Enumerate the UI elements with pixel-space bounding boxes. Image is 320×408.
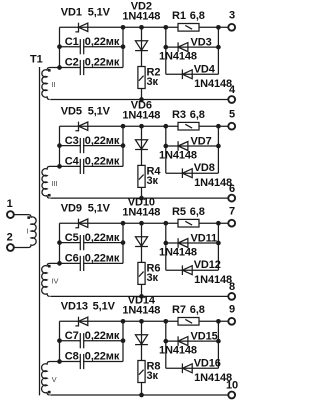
wire C2 left lead (60, 67, 81, 69)
junction C7 right (121, 338, 126, 343)
svg-text:C1: C1 (65, 36, 79, 48)
junction VD15 row left (163, 339, 168, 344)
junction C1 left (57, 44, 62, 49)
wire C6 right lead (84, 262, 123, 264)
svg-text:C7: C7 (65, 330, 79, 342)
terminal pin 1 (7, 211, 14, 218)
svg-text:III: III (52, 179, 58, 188)
junction C1 right (121, 44, 126, 49)
junction C3 right (121, 143, 126, 148)
junction rail/diode-left block1 (163, 25, 168, 30)
resistor R4 (138, 165, 145, 187)
svg-text:1N4148: 1N4148 (194, 274, 232, 286)
svg-text:C6: C6 (65, 253, 79, 265)
wire VD6-R4 chain vertical (141, 126, 143, 198)
svg-text:V: V (52, 375, 57, 384)
wire VD4 row (166, 73, 219, 75)
resistor R7 (178, 318, 199, 326)
svg-text:VD55,1V: VD55,1V (61, 105, 111, 117)
svg-text:I: I (27, 227, 29, 236)
junction rail/diode-left block2 (163, 124, 168, 129)
junction rail/cap-vertical block4 (121, 319, 126, 324)
svg-text:C3: C3 (65, 135, 79, 147)
wire C7 left lead (60, 340, 81, 342)
diode VD6 (135, 140, 147, 150)
wire diode-right vertical block2 (217, 126, 219, 173)
svg-text:0,22мк: 0,22мк (85, 351, 120, 363)
zener diode VD1 (75, 23, 78, 32)
junction R4 bottom (139, 196, 144, 201)
svg-text:1: 1 (7, 198, 13, 210)
svg-text:VD11: VD11 (191, 233, 218, 245)
svg-text:3к: 3к (147, 370, 159, 382)
wire diode-left vertical block4 (165, 321, 167, 368)
svg-text:1N4148: 1N4148 (122, 11, 160, 23)
svg-text:R36,8: R36,8 (172, 109, 205, 121)
diode VD14 (135, 335, 147, 345)
wire C3 right lead (84, 145, 123, 147)
junction rail/diode-right block4 (216, 319, 221, 324)
svg-text:R76,8: R76,8 (172, 304, 205, 316)
capacitor C2 (79, 60, 81, 75)
wire C7 right lead (84, 340, 123, 342)
winding I phase dot (27, 216, 30, 219)
wire C3 left lead (60, 145, 81, 147)
junction rail/diode-right block1 (216, 25, 221, 30)
zener diode VD5 (75, 122, 78, 131)
transformer primary winding I (14, 215, 36, 248)
terminal pin 4 (228, 96, 235, 103)
wire C1 right lead (84, 46, 123, 48)
winding III phase dot (48, 194, 51, 197)
wire C4 left lead (60, 165, 81, 167)
winding V phase dot (48, 391, 51, 394)
svg-text:7: 7 (229, 206, 235, 218)
svg-text:2: 2 (7, 232, 13, 244)
junction rail/VD10 block3 (139, 221, 144, 226)
wire VD8 row (166, 172, 219, 174)
wire bottom rail block1 (50, 99, 228, 101)
wire cap-right vertical block3 (122, 223, 124, 263)
wire C6 left lead (60, 262, 81, 264)
resistor R5 (178, 219, 199, 227)
terminal pin 9 (228, 318, 235, 325)
svg-text:1N4148: 1N4148 (159, 345, 197, 357)
capacitor C3 (79, 138, 81, 153)
svg-text:VD4: VD4 (194, 63, 216, 75)
svg-text:VD16: VD16 (194, 357, 221, 369)
svg-text:VD15,1V: VD15,1V (61, 6, 111, 18)
svg-text:0,22мк: 0,22мк (85, 135, 120, 147)
wire diode-right vertical block3 (217, 223, 219, 270)
junction rail/VD14 block4 (139, 319, 144, 324)
resistor R6 (138, 262, 145, 284)
junction rail/diode-right block2 (216, 124, 221, 129)
wire top rail block2 (60, 125, 229, 127)
resistor R1 (178, 24, 199, 32)
junction rail/diode-left block3 (163, 221, 168, 226)
svg-text:II: II (52, 80, 56, 89)
diode VD10 (135, 237, 147, 247)
junction VD7 row right (216, 144, 221, 149)
transformer winding III (42, 166, 60, 198)
wire bottom rail block4 (50, 394, 228, 396)
svg-text:1N4148: 1N4148 (122, 206, 160, 218)
svg-text:0,22мк: 0,22мк (85, 156, 120, 168)
wire bottom rail block3 (50, 295, 228, 297)
svg-text:3к: 3к (147, 76, 159, 88)
wire VD3 row (166, 46, 219, 48)
zener diode VD13 (75, 317, 78, 326)
wire diode-right vertical block4 (217, 321, 219, 368)
capacitor C4 (79, 159, 81, 174)
diode VD7 (177, 141, 179, 151)
wire C5 left lead (60, 242, 81, 244)
junction C5 left (57, 240, 62, 245)
junction rail/diode-left block4 (163, 319, 168, 324)
wire C8 left lead (60, 361, 81, 363)
junction C7 left (57, 338, 62, 343)
svg-text:VD135,1V: VD135,1V (61, 300, 116, 312)
resistor R8 (138, 361, 145, 383)
junction rail/cap-vertical block1 (121, 25, 126, 30)
svg-text:1N4148: 1N4148 (122, 109, 160, 121)
transformer T1 core (39, 67, 41, 395)
svg-text:R16,8: R16,8 (172, 10, 205, 22)
wire node-A vertical block4 (59, 321, 61, 361)
wire node-A vertical block1 (59, 27, 61, 67)
capacitor C5 (79, 235, 81, 250)
wire diode-right vertical block1 (217, 27, 219, 74)
wire VD15 row (166, 340, 219, 342)
junction rail/VD6 block2 (139, 124, 144, 129)
wire C5 right lead (84, 242, 123, 244)
wire cap-right vertical block1 (122, 27, 124, 67)
resistor R3 (178, 122, 199, 130)
wire diode-left vertical block1 (165, 27, 167, 74)
svg-text:1N4148: 1N4148 (159, 246, 197, 258)
svg-text:0,22мк: 0,22мк (85, 36, 120, 48)
wire top rail block3 (60, 222, 229, 224)
svg-text:T1: T1 (30, 53, 43, 65)
junction rail/diode-right block3 (216, 221, 221, 226)
wire node-A vertical block3 (59, 223, 61, 263)
wire VD11 row (166, 242, 219, 244)
wire diode-left vertical block3 (165, 223, 167, 270)
transformer winding V (42, 362, 60, 396)
diode VD4 (181, 70, 183, 80)
wire C1 left lead (60, 46, 81, 48)
svg-text:9: 9 (229, 304, 235, 316)
winding IV phase dot (48, 265, 51, 268)
svg-text:3к: 3к (147, 175, 159, 187)
svg-text:1N4148: 1N4148 (159, 149, 197, 161)
wire diode-left vertical block2 (165, 126, 167, 173)
svg-text:1N4148: 1N4148 (159, 51, 197, 63)
wire cap-right vertical block4 (122, 321, 124, 361)
junction rail/VD2 block1 (139, 25, 144, 30)
wire VD7 row (166, 145, 219, 147)
junction node A block3 (57, 261, 62, 266)
svg-text:C8: C8 (65, 351, 79, 363)
junction VD3 row left (163, 45, 168, 50)
capacitor C1 (79, 39, 81, 54)
terminal pin 8 (228, 293, 235, 300)
junction rail/cap-vertical block2 (121, 124, 126, 129)
svg-text:VD12: VD12 (194, 259, 221, 271)
svg-text:1N4148: 1N4148 (194, 177, 232, 189)
wire VD12 row (166, 269, 219, 271)
wire C8 right lead (84, 361, 123, 363)
capacitor C8 (79, 354, 81, 369)
terminal pin 7 (228, 220, 235, 227)
diode VD2 (135, 41, 147, 51)
wire cap-right vertical block2 (122, 126, 124, 166)
diode VD12 (181, 265, 183, 275)
junction VD11 row right (216, 241, 221, 246)
junction R8 bottom (139, 393, 144, 398)
junction VD11 row left (163, 241, 168, 246)
svg-text:1N4148: 1N4148 (194, 372, 232, 384)
terminal pin 3 (228, 24, 235, 31)
diode VD15 (177, 336, 179, 346)
zener diode VD9 (75, 219, 78, 228)
junction C3 left (57, 143, 62, 148)
transformer winding IV (42, 263, 60, 296)
resistor R2 (138, 67, 145, 89)
wire C2 right lead (84, 67, 123, 69)
junction VD15 row right (216, 339, 221, 344)
diode VD16 (181, 364, 183, 374)
terminal pin 5 (228, 123, 235, 130)
svg-text:0,22мк: 0,22мк (85, 232, 120, 244)
terminal pin 2 (7, 244, 14, 251)
svg-text:5: 5 (229, 109, 235, 121)
svg-text:1N4148: 1N4148 (122, 305, 160, 317)
wire VD2-R2 chain vertical (141, 27, 143, 99)
junction node A block2 (57, 164, 62, 169)
wire VD10-R6 chain vertical (141, 223, 143, 296)
terminal pin 10 (228, 392, 235, 399)
svg-text:0,22мк: 0,22мк (85, 330, 120, 342)
wire VD14-R8 chain vertical (141, 321, 143, 395)
svg-text:VD95,1V: VD95,1V (61, 202, 111, 214)
junction VD7 row left (163, 144, 168, 149)
wire node-A vertical block2 (59, 126, 61, 166)
wire top rail block4 (60, 320, 229, 322)
svg-text:3к: 3к (147, 272, 159, 284)
svg-text:R56,8: R56,8 (172, 206, 205, 218)
winding II phase dot (48, 69, 51, 72)
svg-text:0,22мк: 0,22мк (85, 253, 120, 265)
junction node A block1 (57, 65, 62, 70)
svg-text:1N4148: 1N4148 (194, 78, 232, 90)
transformer winding II (42, 68, 60, 100)
svg-text:VD15: VD15 (191, 331, 218, 343)
wire VD16 row (166, 367, 219, 369)
svg-text:0,22мк: 0,22мк (85, 57, 120, 69)
svg-text:VD3: VD3 (191, 37, 212, 49)
diode VD8 (181, 168, 183, 178)
capacitor C7 (79, 333, 81, 348)
diode VD11 (177, 238, 179, 248)
junction rail/cap-vertical block3 (121, 221, 126, 226)
svg-text:VD7: VD7 (191, 136, 212, 148)
junction node A block4 (57, 359, 62, 364)
capacitor C6 (79, 256, 81, 271)
junction C5 right (121, 240, 126, 245)
svg-text:C4: C4 (65, 156, 80, 168)
diode VD3 (177, 42, 179, 52)
terminal pin 6 (228, 195, 235, 202)
svg-text:C5: C5 (65, 232, 79, 244)
wire top rail block1 (60, 26, 229, 28)
wire bottom rail block2 (50, 197, 228, 199)
svg-text:C2: C2 (65, 57, 79, 69)
svg-text:3: 3 (229, 10, 235, 22)
junction R6 bottom (139, 294, 144, 299)
svg-text:IV: IV (52, 277, 59, 286)
junction VD3 row right (216, 45, 221, 50)
wire C4 right lead (84, 165, 123, 167)
svg-text:VD8: VD8 (194, 162, 215, 174)
junction R2 bottom (139, 97, 144, 102)
